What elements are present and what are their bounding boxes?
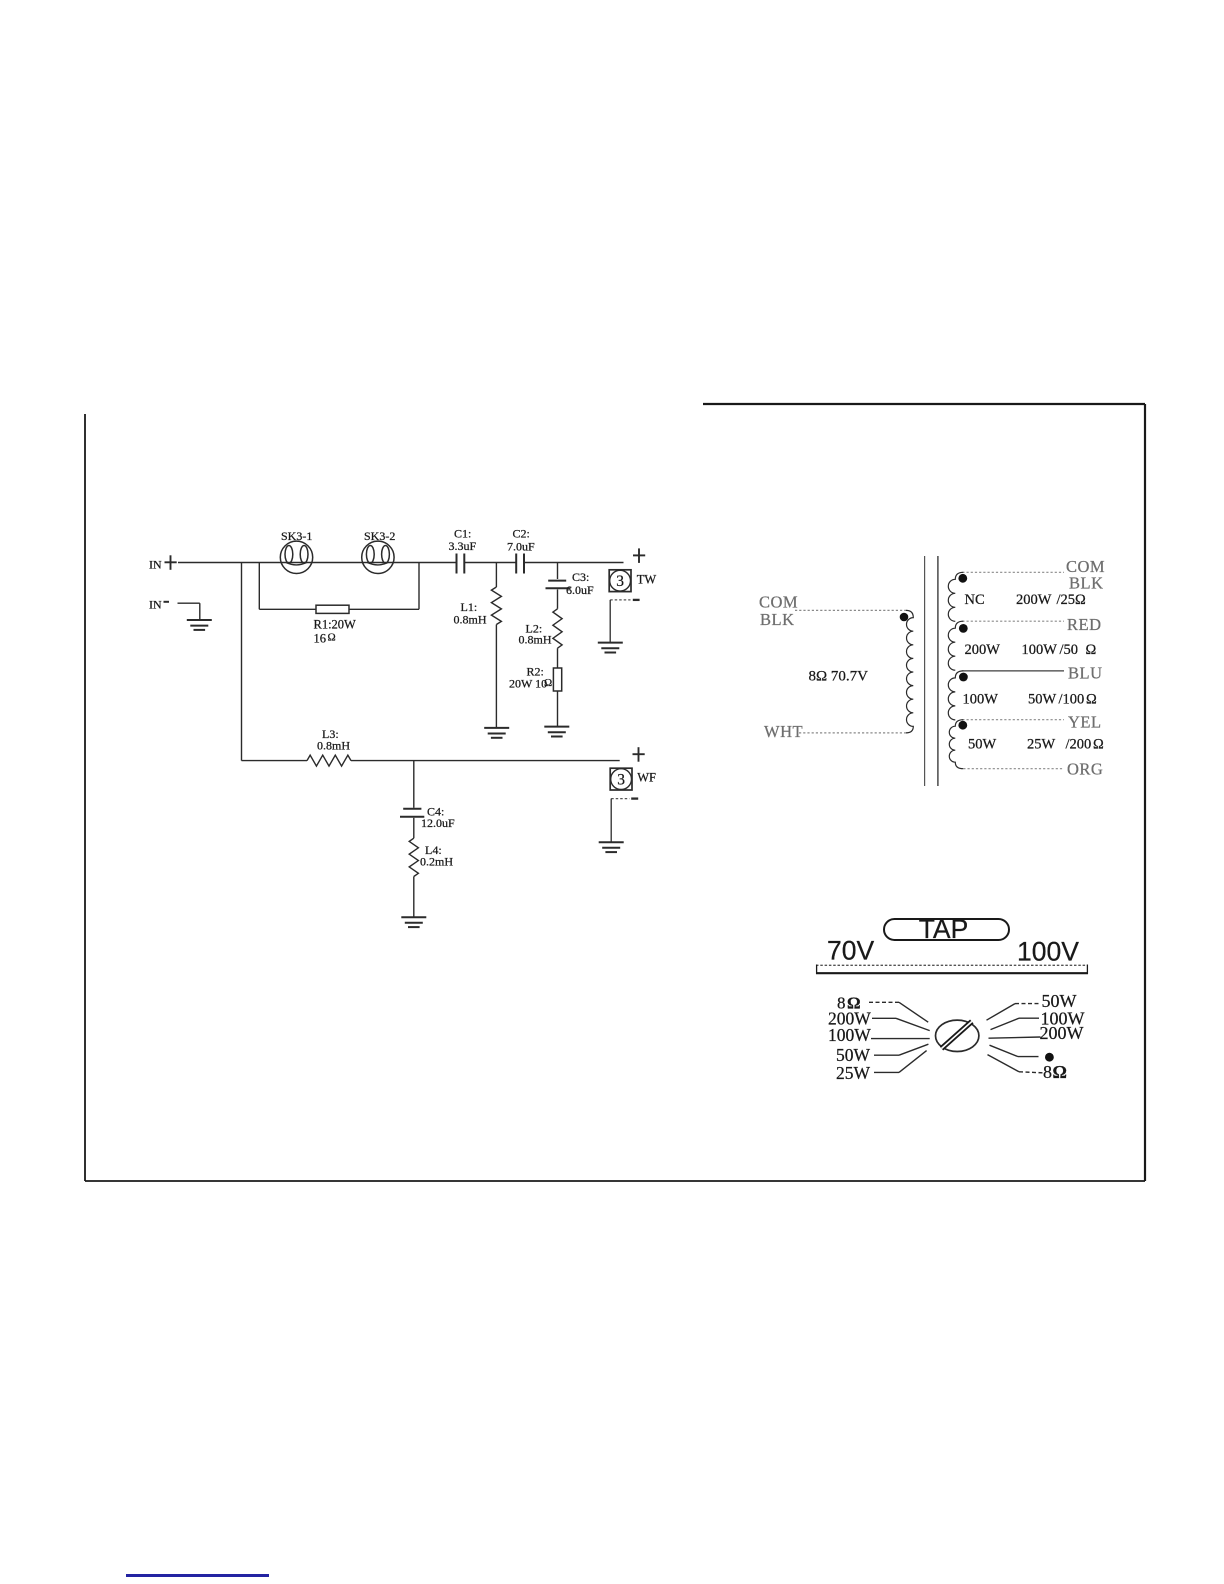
svg-text:Ω: Ω [1086, 691, 1097, 707]
svg-text:3: 3 [616, 573, 624, 590]
wire primary top lead [795, 609, 907, 611]
label L2 value [519, 621, 552, 646]
svg-text:8Ω 70.7V: 8Ω 70.7V [809, 668, 869, 684]
capacitor C1 [457, 554, 465, 574]
ground L4 [401, 917, 426, 927]
svg-text:25W: 25W [1027, 736, 1056, 752]
svg-text:COM: COM [759, 593, 798, 612]
svg-text:IN: IN [149, 558, 162, 572]
capacitor C2 [516, 554, 524, 574]
footer underline [126, 1574, 269, 1577]
resistor R2 [553, 668, 561, 726]
label tap row 100W 50W 100ohm [963, 691, 1098, 707]
resistor R1 [316, 605, 349, 613]
label R1 value [314, 617, 357, 645]
svg-text:Ω: Ω [328, 632, 336, 644]
label tap row 50W 25W 200ohm [968, 736, 1104, 752]
svg-text:/25: /25 [1057, 592, 1076, 608]
label BLK secondary [1069, 574, 1104, 593]
inductor L4 [409, 818, 418, 917]
switch rotary knob [936, 1020, 979, 1051]
svg-text:100W: 100W [828, 1025, 871, 1045]
node WF plus terminal [633, 747, 645, 762]
node right common dot [1045, 1053, 1054, 1062]
svg-text:200W: 200W [965, 642, 1001, 658]
svg-text:20W 10: 20W 10 [509, 676, 547, 690]
inductor L3 [307, 755, 351, 766]
node primary phase dot [900, 613, 909, 622]
svg-text:Ω: Ω [544, 677, 552, 689]
lamp SK3-1 [280, 529, 312, 574]
label tap row 200W 100W 50ohm [965, 642, 1097, 658]
label BLK primary [760, 610, 795, 629]
svg-text:0.8mH: 0.8mH [519, 633, 552, 647]
svg-text:C3:: C3: [572, 570, 589, 584]
svg-text:50W: 50W [968, 736, 997, 752]
label left 8ohm [837, 994, 861, 1013]
label 70V [827, 936, 874, 966]
wire R1 bypass loop [259, 563, 419, 610]
capacitor C3 [546, 563, 571, 589]
label left 200W [828, 1008, 871, 1028]
wire WF minus to ground [611, 799, 638, 842]
lamp SK3-2 [362, 529, 396, 574]
label C3 value [566, 570, 594, 597]
ground TW [598, 643, 623, 653]
svg-text:3.3uF: 3.3uF [449, 539, 477, 553]
label C1 value [449, 527, 477, 553]
bar selector plate [816, 965, 1088, 975]
svg-text:25W: 25W [836, 1063, 871, 1083]
node IN- input terminal label [149, 598, 169, 612]
svg-text:50W: 50W [836, 1045, 871, 1065]
svg-text:BLU: BLU [1068, 664, 1103, 683]
wire junction vertical to woofer branch [241, 563, 243, 761]
wire left 50W to knob [874, 1044, 928, 1055]
wire knob to right 8ohm [988, 1055, 1043, 1073]
svg-text:ORG: ORG [1067, 760, 1103, 779]
svg-text:200W: 200W [1016, 592, 1052, 608]
label 100V [1017, 937, 1079, 967]
svg-text:RED: RED [1067, 615, 1102, 634]
svg-text:BLK: BLK [760, 610, 795, 629]
label COM secondary [1066, 557, 1105, 576]
node secondary phase dots [958, 574, 967, 730]
label right 200W [1040, 1023, 1084, 1043]
svg-text:8: 8 [1043, 1062, 1052, 1082]
svg-text:0.8mH: 0.8mH [317, 738, 350, 752]
ground WF [599, 842, 624, 852]
ground IN- [187, 620, 212, 630]
label right 50W [1042, 991, 1077, 1011]
wire knob to right dot [990, 1045, 1039, 1056]
terminal WF [610, 768, 656, 790]
label primary rating [809, 668, 869, 684]
svg-text:NC: NC [965, 592, 985, 608]
label TAP pill [884, 914, 1009, 944]
label L1 value [454, 600, 487, 626]
label ORG secondary [1067, 760, 1103, 779]
label BLU secondary [1068, 664, 1103, 683]
label RED secondary [1067, 615, 1102, 634]
wire knob to right 200W [989, 1037, 1041, 1038]
svg-text:WF: WF [637, 771, 656, 785]
svg-text:200W: 200W [1040, 1023, 1084, 1043]
wire left 200W to knob [872, 1018, 930, 1030]
svg-text:SK3-1: SK3-1 [281, 529, 312, 543]
label left 25W [836, 1063, 871, 1083]
label right 100W [1041, 1009, 1085, 1029]
label left 100W [828, 1025, 871, 1045]
inductor L2 [553, 590, 562, 669]
svg-text:BLK: BLK [1069, 574, 1104, 593]
capacitor C4 [400, 761, 424, 817]
node IN+ input terminal label [149, 555, 177, 571]
label C4 value [421, 804, 455, 830]
ground L1 [484, 728, 509, 738]
wire left 8ohm to knob [869, 1002, 928, 1022]
label L3 value [317, 727, 350, 753]
label R2 value [509, 664, 552, 690]
wire IN+ main horizontal rail [178, 562, 624, 564]
svg-text:/50: /50 [1060, 642, 1079, 658]
label left 50W [836, 1045, 871, 1065]
svg-text:70V: 70V [827, 936, 874, 966]
label L4 value [420, 843, 453, 869]
svg-text:TW: TW [637, 572, 657, 586]
wire left 100W to knob [871, 1038, 930, 1040]
node TW plus terminal [633, 548, 645, 563]
svg-text:/200: /200 [1066, 736, 1092, 752]
svg-text:7.0uF: 7.0uF [507, 539, 535, 553]
svg-text:100W: 100W [1022, 642, 1058, 658]
label C2 value [507, 527, 535, 554]
svg-text:3: 3 [617, 772, 625, 789]
wire IN- to ground [178, 603, 200, 619]
inductor transformer primary winding [906, 610, 913, 733]
frame border of diagram box [85, 404, 1145, 1181]
svg-text:100V: 100V [1017, 937, 1079, 967]
label right 8ohm [1043, 1062, 1067, 1082]
label YEL secondary [1068, 713, 1102, 732]
svg-text:TAP: TAP [919, 914, 969, 944]
wire knob to right 50W [987, 1004, 1042, 1021]
svg-text:WHT: WHT [764, 722, 803, 741]
wire primary bottom lead [799, 732, 907, 734]
svg-text:Ω: Ω [1086, 642, 1097, 658]
svg-text:R1:20W: R1:20W [314, 617, 357, 631]
label COM primary [759, 593, 798, 612]
terminal TW [609, 570, 656, 592]
inductor L1 [491, 563, 501, 728]
ground R2 [544, 727, 569, 737]
svg-text:6.0uF: 6.0uF [566, 583, 594, 597]
wire left 25W to knob [874, 1051, 927, 1073]
svg-text:100W: 100W [963, 691, 999, 707]
svg-text:16: 16 [314, 631, 327, 645]
wire transformer core [925, 556, 938, 786]
svg-text:Ω: Ω [1075, 592, 1086, 608]
wire knob to right 100W [991, 1018, 1040, 1029]
svg-text:12.0uF: 12.0uF [421, 816, 455, 830]
svg-text:IN: IN [149, 598, 162, 612]
svg-text:SK3-2: SK3-2 [364, 529, 395, 543]
wire woofer horizontal rail [242, 760, 620, 762]
svg-text:0.8mH: 0.8mH [454, 612, 487, 626]
inductor transformer secondary winding with taps [948, 572, 1064, 768]
svg-text:/100: /100 [1059, 691, 1085, 707]
wire TW minus to ground [610, 600, 639, 642]
svg-text:0.2mH: 0.2mH [420, 855, 453, 869]
svg-text:Ω: Ω [1093, 736, 1104, 752]
svg-text:50W: 50W [1028, 691, 1057, 707]
label tap row NC 200W 25ohm [965, 592, 1087, 608]
label WHT primary [764, 722, 803, 741]
svg-text:Ω: Ω [1053, 1062, 1067, 1082]
svg-text:YEL: YEL [1068, 713, 1102, 732]
